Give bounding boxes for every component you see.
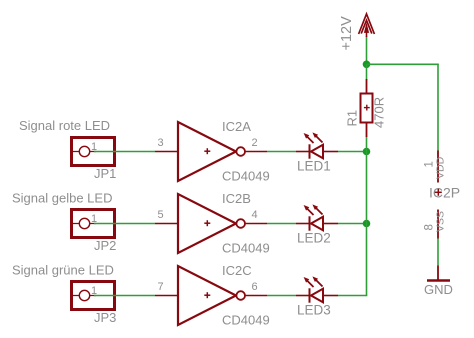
svg-text:3: 3 xyxy=(158,137,164,149)
svg-text:JP3: JP3 xyxy=(94,310,116,325)
wire LED3 to bus xyxy=(338,295,367,297)
wire JP3 to IC2C input xyxy=(94,295,155,297)
pin stub IC2C input xyxy=(155,295,178,297)
svg-text:4: 4 xyxy=(252,209,258,221)
wire down to VDD xyxy=(437,64,439,151)
connector JP1 xyxy=(72,138,115,166)
svg-text:470R: 470R xyxy=(372,97,387,128)
inverter IC2B xyxy=(178,194,245,253)
connector JP2 xyxy=(72,210,115,238)
svg-text:R1: R1 xyxy=(345,110,360,127)
svg-text:CD4049: CD4049 xyxy=(222,241,270,256)
svg-text:Signal grüne LED: Signal grüne LED xyxy=(12,263,114,278)
wire junction-to-resistor xyxy=(366,64,368,79)
connector JP3 xyxy=(72,282,115,310)
svg-text:IC2P: IC2P xyxy=(429,185,460,201)
diode LED1 xyxy=(296,132,338,158)
pin 8 VSS xyxy=(437,210,439,239)
svg-text:LED2: LED2 xyxy=(297,231,331,246)
svg-text:IC2A: IC2A xyxy=(222,119,251,134)
svg-text:VSS: VSS xyxy=(435,211,447,232)
svg-text:LED3: LED3 xyxy=(297,303,331,318)
pin stub IC2C output xyxy=(245,295,267,297)
pin 1 VDD xyxy=(437,151,439,183)
wire IC2C output to LED3 xyxy=(267,295,296,297)
diode LED3 xyxy=(296,276,338,302)
svg-text:Signal rote LED: Signal rote LED xyxy=(19,118,110,133)
svg-text:IC2C: IC2C xyxy=(222,263,252,278)
svg-text:LED1: LED1 xyxy=(297,159,331,174)
junction top xyxy=(363,61,371,69)
svg-text:IC2B: IC2B xyxy=(222,191,251,206)
svg-text:5: 5 xyxy=(158,209,164,221)
svg-text:VDD: VDD xyxy=(435,156,447,179)
svg-text:CD4049: CD4049 xyxy=(222,169,270,184)
inverter IC2A xyxy=(178,122,245,181)
label IC2P xyxy=(429,185,460,201)
pin stub IC2A input xyxy=(155,151,178,153)
wire VSS to GND xyxy=(437,239,439,266)
wire IC2B output to LED2 xyxy=(267,223,296,225)
svg-text:7: 7 xyxy=(158,281,164,293)
pin stub IC2B input xyxy=(155,223,178,225)
wire IC2A output to LED1 xyxy=(267,151,296,153)
supply +12V symbol xyxy=(359,14,375,64)
wire LED2 to bus xyxy=(338,223,367,225)
svg-text:2: 2 xyxy=(252,137,258,149)
pin stub IC2B output xyxy=(245,223,267,225)
svg-text:CD4049: CD4049 xyxy=(222,313,270,328)
svg-text:6: 6 xyxy=(252,281,258,293)
junction row1 xyxy=(363,148,371,156)
wire vertical bus xyxy=(366,137,368,296)
wire top horizontal to IC2P xyxy=(367,63,439,65)
wire JP2 to IC2B input xyxy=(94,223,155,225)
junction row2 xyxy=(363,220,371,228)
svg-text:+12V: +12V xyxy=(339,16,355,51)
resistor R1 xyxy=(361,79,373,137)
ground GND xyxy=(427,266,450,281)
pin stub IC2A output xyxy=(245,151,267,153)
svg-text:JP2: JP2 xyxy=(94,238,116,253)
wire LED1 to bus xyxy=(338,151,367,153)
wire JP1 to IC2A input xyxy=(94,151,155,153)
inverter IC2C xyxy=(178,266,245,325)
svg-text:GND: GND xyxy=(424,282,453,297)
svg-text:JP1: JP1 xyxy=(94,166,116,181)
diode LED2 xyxy=(296,204,338,230)
svg-text:Signal gelbe LED: Signal gelbe LED xyxy=(12,191,112,206)
